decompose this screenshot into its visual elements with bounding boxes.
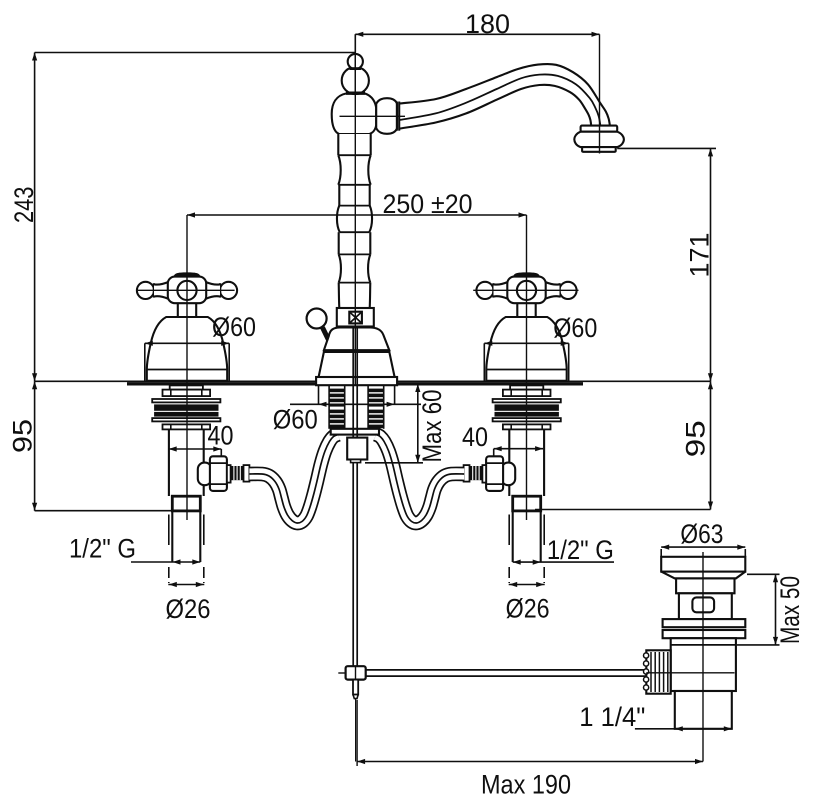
svg-text:243: 243 [9,187,39,224]
svg-text:Max 50: Max 50 [775,576,805,644]
svg-text:180: 180 [465,9,510,39]
svg-text:Ø60: Ø60 [212,312,256,342]
svg-text:171: 171 [685,233,715,278]
svg-text:40: 40 [208,421,234,451]
svg-text:Ø60: Ø60 [273,404,318,434]
svg-text:250 ±20: 250 ±20 [383,189,473,219]
svg-text:Max 190: Max 190 [481,769,571,799]
svg-text:Ø26: Ø26 [166,594,211,624]
svg-text:1/2" G: 1/2" G [69,534,136,564]
svg-text:95: 95 [681,420,711,457]
svg-text:Ø63: Ø63 [680,519,723,549]
svg-text:Ø26: Ø26 [506,593,550,623]
svg-text:1/2" G: 1/2" G [547,535,614,565]
svg-text:Max 60: Max 60 [417,390,447,463]
svg-text:40: 40 [462,422,488,452]
svg-text:95: 95 [8,419,38,453]
svg-text:Ø60: Ø60 [553,313,597,343]
svg-text:1 1/4": 1 1/4" [579,702,645,732]
